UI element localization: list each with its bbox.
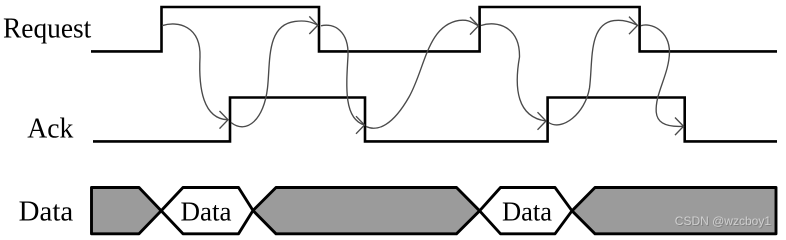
svg-text:Data: Data	[502, 196, 552, 226]
svg-text:Data: Data	[19, 197, 74, 228]
svg-text:Ack: Ack	[27, 114, 73, 145]
svg-text:CSDN @wzcboy1: CSDN @wzcboy1	[675, 214, 772, 228]
svg-text:Request: Request	[3, 14, 92, 45]
svg-text:Data: Data	[181, 196, 232, 226]
